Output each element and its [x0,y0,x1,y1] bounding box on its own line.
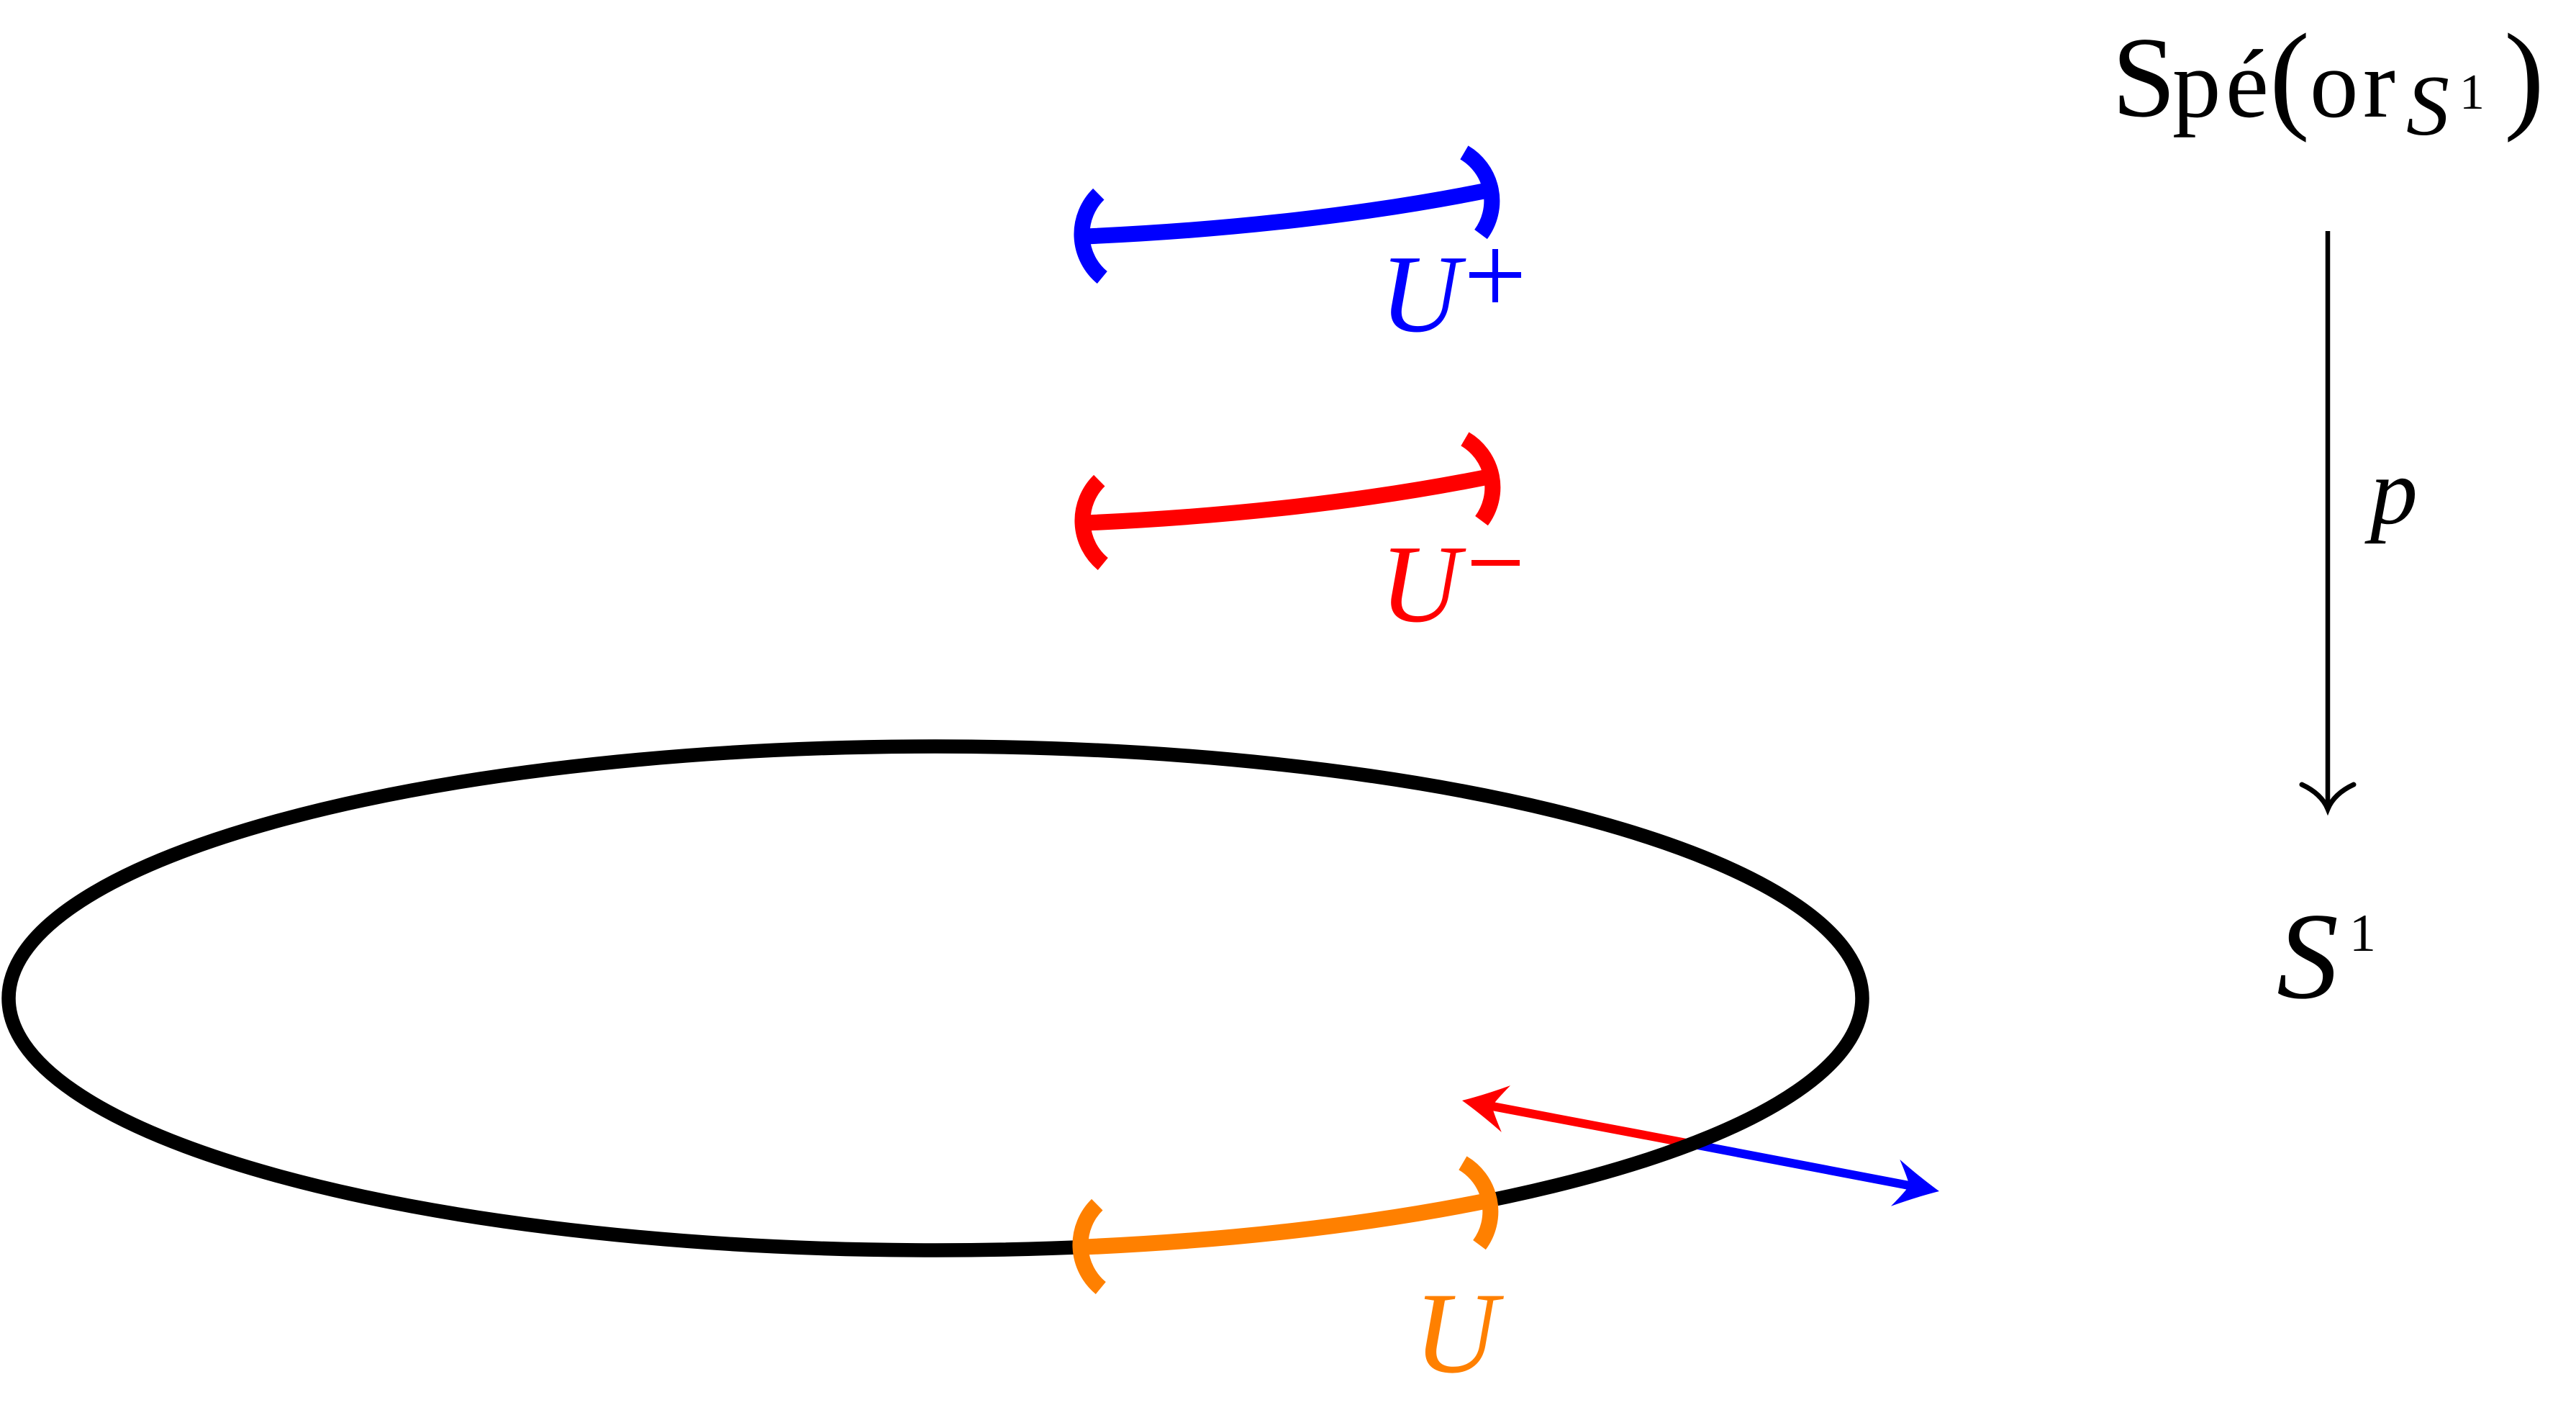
svg-text:U: U [1414,1269,1504,1397]
svg-text:1: 1 [2459,65,2485,120]
svg-text:o: o [2310,31,2359,138]
red orientation vector arrow [1458,1078,1690,1144]
open set U arc (orange) with parenthesis caps [1080,1163,1490,1288]
svg-text:r: r [2363,31,2395,138]
svg-text:1: 1 [2349,904,2376,963]
label U- (red) [1380,523,1520,646]
svg-text:U: U [1380,233,1466,356]
section U- arc (red) with parenthesis caps [1082,439,1492,564]
svg-text:é: é [2226,31,2269,138]
svg-text:S: S [2406,58,2449,153]
label U+ (blue) [1380,233,1521,356]
base circle S1 (ellipse) [9,746,1862,1250]
svg-text:S: S [2112,13,2176,141]
blue orientation vector arrow [1690,1144,1944,1214]
svg-text:): ) [2504,9,2544,143]
section U+ arc (blue) with parenthesis caps [1081,153,1492,278]
projection arrow p (vertical) [2302,231,2354,809]
label Spe(or_S1) [2112,9,2544,153]
label S1 (base) [2277,888,2376,1025]
svg-text:U: U [1380,523,1466,646]
svg-text:S: S [2277,888,2339,1025]
svg-text:(: ( [2269,9,2310,143]
svg-text:p: p [2172,31,2221,138]
svg-text:p: p [2364,438,2418,544]
